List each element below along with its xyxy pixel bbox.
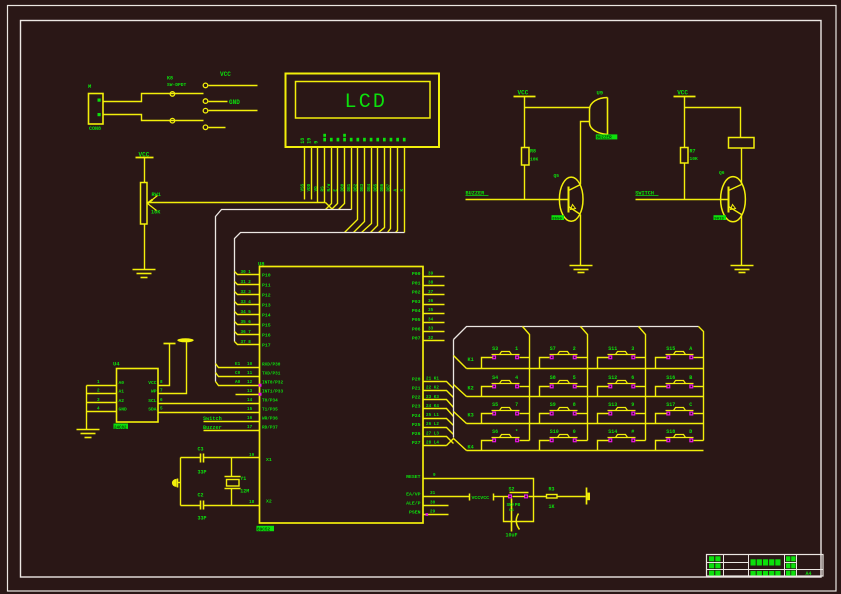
svg-text:26 L2: 26 L2 (426, 422, 439, 427)
svg-text:1: 1 (97, 380, 100, 385)
svg-text:31: 31 (430, 491, 436, 496)
wire S17 right (694, 413, 704, 415)
svg-text:15: 15 (247, 407, 253, 412)
svg-text:10K: 10K (690, 156, 699, 162)
wire S2 to R3 (529, 496, 547, 498)
wire buzzer to Q5 collector (581, 122, 590, 185)
wire S12 right (636, 386, 646, 388)
svg-text:6: 6 (631, 375, 634, 381)
wire pot bottom (144, 224, 146, 270)
wire CON8 pin2 to switch pole2 (103, 115, 204, 121)
wire row K4 takeoff (447, 439, 467, 451)
svg-text:R3: R3 (549, 486, 555, 492)
svg-text:S3: S3 (492, 346, 498, 352)
wire P0.5 stub (424, 322, 445, 324)
svg-text:5: 5 (160, 407, 163, 412)
svg-text:SCL: SCL (148, 398, 157, 404)
svg-text:C: C (689, 402, 692, 408)
wire LCD pin8 (351, 147, 353, 210)
svg-text:36 7: 36 7 (241, 330, 252, 335)
svg-text:24C02: 24C02 (114, 426, 127, 430)
svg-text:39: 39 (428, 271, 434, 276)
wire P0.1 stub (424, 285, 445, 287)
wire LCD pin4 RS (325, 147, 333, 210)
svg-text:5: 5 (573, 375, 576, 381)
svg-text:A: A (689, 346, 692, 352)
crystal Y1 12M (231, 458, 233, 477)
ground Q6 (731, 265, 754, 267)
svg-text:P13: P13 (262, 302, 271, 308)
svg-text:C3: C3 (198, 447, 204, 453)
wire switch throw2 GND (209, 101, 228, 103)
svg-text:P15: P15 (262, 322, 271, 328)
wire S17 left (656, 414, 667, 424)
wire P2.4 stub (424, 419, 454, 426)
svg-text:S9: S9 (550, 402, 556, 408)
title block text col4 (786, 556, 790, 561)
svg-text:T1/P35: T1/P35 (262, 408, 278, 413)
svg-text:S13: S13 (608, 402, 617, 408)
wire column 4 drop (699, 327, 704, 441)
wire P2.6 stub (424, 437, 454, 444)
svg-text:9: 9 (313, 141, 319, 144)
wire S18 left (656, 441, 667, 451)
wire keypad top bus white (454, 327, 699, 340)
wire INT0 from bus (216, 382, 260, 386)
wire P1.0 stub (235, 272, 260, 275)
wire bus W1 white (216, 210, 352, 382)
svg-text:P20: P20 (412, 376, 421, 382)
wire S6 left (482, 441, 493, 451)
svg-text:35: 35 (428, 308, 434, 313)
svg-text:12: 12 (247, 380, 253, 385)
resistor R8 10K (522, 148, 530, 166)
svg-text:R7: R7 (690, 149, 696, 155)
svg-text:34 5: 34 5 (241, 310, 252, 315)
svg-text:32: 32 (428, 336, 434, 341)
svg-text:17: 17 (247, 425, 253, 430)
wire P1.1 stub (235, 282, 260, 285)
svg-text:P12: P12 (262, 292, 271, 298)
wire crystal left (180, 458, 182, 506)
wire column 3 drop (639, 327, 646, 441)
relay coil box (729, 138, 755, 149)
title block school text (751, 571, 756, 576)
svg-text:S5: S5 (492, 402, 498, 408)
wire P0.7 stub (424, 340, 445, 342)
wire R3 to VCC bar (557, 496, 586, 498)
capacitor C6 10uF electrolytic (511, 499, 513, 532)
svg-text:P21: P21 (412, 385, 421, 391)
power ellipse U4 WP (177, 338, 193, 342)
wire row K1 (467, 368, 704, 370)
svg-text:28 L4: 28 L4 (426, 440, 439, 445)
svg-text:12M: 12M (240, 489, 249, 495)
svg-text:10K: 10K (530, 157, 539, 163)
title block table (707, 555, 824, 577)
wire S4 right (520, 386, 530, 388)
svg-text:S6: S6 (492, 429, 498, 435)
svg-text:2: 2 (97, 388, 100, 393)
svg-text:S8: S8 (550, 375, 556, 381)
wire switch throw3 (209, 110, 258, 112)
wire S3 left (482, 358, 493, 369)
svg-text:S16: S16 (666, 375, 675, 381)
svg-text:RD/P37: RD/P37 (262, 426, 278, 431)
wire U4 VCC pin to power bar (159, 344, 170, 386)
wire column 2 drop (581, 327, 588, 441)
wire S7 right (577, 357, 588, 359)
power bar U4 VCC (164, 343, 176, 345)
wire P1.2 stub (235, 292, 260, 295)
wire U4 left common (86, 386, 88, 430)
ground U4 (77, 429, 100, 431)
svg-text:2: 2 (573, 346, 576, 352)
svg-text:30: 30 (430, 501, 436, 506)
wire S11 left (598, 358, 609, 369)
svg-text:89C52: 89C52 (257, 527, 271, 532)
svg-text:8550: 8550 (552, 217, 562, 221)
wire P1.5 stub (235, 322, 260, 325)
svg-text:P06: P06 (412, 326, 421, 332)
svg-text:6: 6 (160, 398, 163, 403)
svg-text:36: 36 (428, 299, 434, 304)
svg-text:P00: P00 (412, 271, 421, 277)
wire switch throw1 VCC (209, 85, 258, 87)
wire S16 left (656, 387, 667, 397)
svg-text:23 K3: 23 K3 (426, 395, 439, 400)
wire flag to S2 (494, 496, 509, 498)
wire S5 left (482, 414, 493, 424)
wire S7 left (540, 358, 550, 369)
svg-text:SW-DPDT: SW-DPDT (167, 82, 187, 88)
power bar right (586, 488, 588, 505)
svg-text:U4: U4 (113, 361, 120, 368)
svg-text:VCC: VCC (677, 90, 688, 97)
wire S8 right (577, 386, 588, 388)
wire P2.1 stub (424, 391, 454, 398)
wire S5 right (520, 413, 530, 415)
svg-text:C2: C2 (198, 493, 204, 499)
wire RESET net (424, 479, 534, 522)
svg-text:X1: X1 (266, 457, 272, 463)
wire TXD from bus (216, 373, 260, 377)
potentiometer RW1 10K (141, 183, 148, 225)
svg-text:4: 4 (97, 407, 100, 412)
svg-text:1K: 1K (549, 504, 555, 510)
svg-text:P01: P01 (412, 280, 421, 286)
svg-text:P11: P11 (262, 282, 271, 288)
svg-text:33: 33 (428, 327, 434, 332)
wire P2.5 stub (424, 428, 454, 435)
ground crystal left port (178, 482, 181, 484)
svg-text:GND: GND (229, 99, 240, 106)
svg-text:Q6: Q6 (719, 170, 725, 176)
svg-text:A1: A1 (119, 388, 125, 394)
svg-text:K1: K1 (468, 357, 474, 363)
svg-text:P03: P03 (412, 299, 421, 305)
wire LCD pin3 VO stub (317, 147, 319, 203)
svg-text:RESET: RESET (406, 474, 421, 480)
svg-text:PSEN: PSEN (409, 510, 421, 516)
svg-text:0: 0 (573, 429, 576, 435)
wire Q6 emitter (741, 215, 743, 266)
svg-text:R8: R8 (530, 149, 536, 155)
wire PSEN stub (424, 514, 449, 516)
svg-text:14: 14 (247, 398, 253, 403)
svg-text:P05: P05 (412, 317, 421, 323)
svg-text:P14: P14 (262, 312, 271, 318)
svg-text:35 6: 35 6 (241, 320, 252, 325)
svg-text:S10: S10 (550, 429, 559, 435)
svg-text:P04: P04 (412, 308, 421, 314)
wire LCD pin2 VDD stub (311, 147, 313, 200)
wire S10 right (577, 440, 588, 442)
wire VCC to buzzer (525, 107, 590, 109)
wire switch base (636, 199, 729, 201)
wire Switch to WR (204, 421, 260, 423)
svg-text:RXD/P30: RXD/P30 (262, 363, 281, 368)
wire S14 left (598, 441, 609, 451)
U4 left pins A0 A1 A2 GND (87, 385, 117, 387)
wire RXD from bus (216, 364, 260, 368)
wire P1.4 stub (235, 312, 260, 315)
svg-text:K3: K3 (468, 413, 474, 419)
svg-text:TXD/P31: TXD/P31 (262, 372, 281, 377)
wire R8 to base wire (524, 165, 526, 200)
svg-text:4: 4 (515, 375, 518, 381)
wire EA/VP to VCC flag (424, 496, 470, 498)
wire S9 left (540, 414, 550, 424)
svg-text:S18: S18 (666, 429, 675, 435)
svg-text:16: 16 (247, 416, 253, 421)
svg-text:Q5: Q5 (554, 173, 560, 179)
svg-text:A2: A2 (119, 398, 125, 404)
title block text col1 (709, 556, 714, 561)
title block title text (751, 559, 756, 565)
svg-text:EA/VP: EA/VP (406, 491, 421, 497)
svg-text:8: 8 (573, 402, 576, 408)
svg-text:8: 8 (160, 380, 163, 385)
svg-text:VCC: VCC (148, 380, 157, 386)
svg-text:34: 34 (428, 317, 434, 322)
svg-text:SDA: SDA (148, 407, 157, 413)
wire SDA U4 to T1 (159, 412, 260, 414)
svg-text:U9: U9 (597, 90, 604, 97)
svg-text:P10: P10 (262, 272, 271, 278)
svg-text:S4: S4 (492, 375, 498, 381)
svg-text:31 2: 31 2 (241, 280, 252, 285)
svg-text:P24: P24 (412, 413, 421, 419)
svg-text:VCC: VCC (518, 90, 529, 97)
ground Q5 (570, 265, 593, 267)
wire S18 right (694, 440, 704, 442)
svg-text:K2: K2 (468, 386, 474, 392)
svg-text:P07: P07 (412, 336, 421, 342)
wire P1.7 stub (235, 342, 260, 345)
svg-text:18: 18 (300, 138, 306, 144)
wire S8 left (540, 387, 550, 397)
wire row K2 takeoff (454, 385, 467, 397)
wire P2.0 stub (424, 382, 454, 389)
svg-text:18: 18 (249, 500, 255, 505)
svg-text:38: 38 (428, 281, 434, 286)
svg-text:A0: A0 (119, 380, 125, 386)
wire relay to Q6 collector (741, 148, 743, 185)
svg-text:C6: C6 (509, 509, 514, 513)
wire P1.3 stub (235, 302, 260, 305)
svg-text:E1: E1 (235, 362, 241, 367)
wire LCD pin6 (332, 147, 338, 210)
svg-text:9013: 9013 (714, 217, 724, 221)
svg-text:WP: WP (151, 388, 157, 394)
resistor R7 10K (681, 148, 689, 164)
svg-text:LCD: LCD (345, 91, 388, 114)
svg-text:33P: 33P (198, 470, 207, 476)
wire S10 left (540, 441, 550, 451)
svg-text:S2: S2 (509, 486, 515, 492)
svg-text:25 L1: 25 L1 (426, 413, 439, 418)
resistor R3 1K (547, 495, 558, 499)
wire P0.6 stub (424, 331, 445, 333)
LCD module outer (286, 74, 440, 148)
wire S11 right (636, 357, 646, 359)
svg-text:33 4: 33 4 (241, 300, 252, 305)
svg-text:1: 1 (515, 346, 518, 352)
wire P0.3 stub (424, 304, 445, 306)
svg-text:3: 3 (97, 398, 100, 403)
svg-text:INT0/P32: INT0/P32 (262, 381, 283, 386)
wire row K2 (467, 396, 704, 398)
wire column 1 drop (523, 327, 530, 441)
svg-text:A0: A0 (235, 380, 241, 385)
svg-text:A4: A4 (806, 571, 812, 577)
wire LCD pin1 VSS stub (304, 147, 306, 200)
wire S4 left (482, 387, 493, 397)
wire row K4 (467, 450, 704, 452)
svg-text:22: 22 (509, 504, 514, 508)
wire INT1 stub (236, 394, 260, 396)
svg-text:P23: P23 (412, 404, 421, 410)
svg-text:32 3: 32 3 (241, 290, 252, 295)
power flag VCCVCC (469, 494, 471, 501)
svg-text:19: 19 (307, 138, 313, 144)
svg-text:10: 10 (247, 362, 253, 367)
svg-text:24 K4: 24 K4 (426, 404, 439, 409)
wire switch throw4 (209, 127, 226, 129)
svg-text:INT1/P33: INT1/P33 (262, 390, 283, 395)
wire U4 WP to power (159, 342, 187, 394)
wire P1.6 stub (235, 332, 260, 335)
wire Buzzer to RD (204, 430, 260, 432)
svg-text:Y1: Y1 (240, 476, 246, 482)
svg-text:22 K2: 22 K2 (426, 386, 439, 391)
MCU U8 89C52 body (260, 267, 424, 524)
svg-text:CON8: CON8 (89, 126, 101, 132)
svg-text:37 8: 37 8 (241, 340, 252, 345)
svg-text:S15: S15 (666, 346, 675, 352)
svg-text:S12: S12 (608, 375, 617, 381)
svg-text:11: 11 (247, 371, 253, 376)
wire LCD pin5 (326, 147, 332, 210)
svg-text:P22: P22 (412, 395, 421, 401)
wire S3 right (520, 357, 530, 359)
wire S13 left (598, 414, 609, 424)
svg-text:S14: S14 (608, 429, 617, 435)
svg-text:P02: P02 (412, 290, 421, 296)
wire P0.0 stub (424, 276, 445, 278)
wire SCL U4 to T0 (159, 403, 260, 405)
svg-text:D: D (689, 429, 692, 435)
svg-text:VCC: VCC (220, 71, 231, 78)
svg-text:ALE/P: ALE/P (406, 501, 421, 507)
svg-text:P26: P26 (412, 431, 421, 437)
wire row K1 takeoff (454, 356, 467, 369)
wire Q5 emitter (580, 215, 582, 266)
wire S16 right (694, 386, 704, 388)
svg-text:#: # (631, 429, 634, 435)
svg-text:BUZZER: BUZZER (597, 137, 613, 141)
svg-text:WR/P36: WR/P36 (262, 417, 278, 422)
svg-text:T0/P34: T0/P34 (262, 399, 278, 404)
wire S15 left (656, 358, 667, 369)
ground pot (133, 269, 156, 271)
svg-text:10uF: 10uF (506, 533, 518, 539)
connector CON8 (89, 94, 104, 125)
svg-text:S7: S7 (550, 346, 556, 352)
wire S6 right (520, 440, 530, 442)
wire LCD data pins 9-16 to bus (345, 147, 358, 233)
svg-text:7: 7 (515, 402, 518, 408)
svg-text:U8: U8 (258, 261, 265, 268)
wire VCC to relay (685, 108, 741, 138)
svg-text:9: 9 (631, 402, 634, 408)
svg-text:K4: K4 (468, 445, 474, 451)
svg-text:P16: P16 (262, 332, 271, 338)
svg-text:21 K1: 21 K1 (426, 377, 439, 382)
LCD module inner (296, 82, 431, 119)
svg-text:P17: P17 (262, 342, 271, 348)
svg-text:VCCVCC: VCCVCC (472, 495, 490, 501)
svg-text:K8: K8 (167, 76, 173, 82)
svg-text:S17: S17 (666, 402, 675, 408)
wire buzzer base (466, 199, 569, 201)
wire P2.3 stub (424, 409, 454, 417)
svg-text:S11: S11 (608, 346, 617, 352)
svg-text:33P: 33P (198, 516, 207, 522)
svg-text:C0: C0 (235, 371, 241, 376)
wire LCD pin7 (339, 147, 345, 210)
wire S12 left (598, 387, 609, 397)
pot wiper arrow (148, 196, 158, 204)
wire pot wiper to LCD VO (148, 202, 326, 204)
svg-text:P27: P27 (412, 440, 421, 446)
svg-text:X2: X2 (266, 499, 272, 505)
svg-text:37: 37 (428, 290, 434, 295)
wire CON8 pin1 to switch pole1 (103, 94, 204, 102)
wire keypad left bus white (453, 340, 455, 438)
wire P0.2 stub (424, 294, 445, 296)
svg-text:3: 3 (631, 346, 634, 352)
wire P2.7 stub (424, 445, 447, 447)
wire S9 right (577, 413, 588, 415)
svg-text:7: 7 (160, 388, 163, 393)
wire P0.4 stub (424, 313, 445, 315)
wire R7 to base wire (684, 164, 686, 200)
svg-text:30 1: 30 1 (241, 270, 252, 275)
wire P2.2 stub (424, 400, 454, 408)
wire row K3 takeoff (454, 412, 467, 424)
